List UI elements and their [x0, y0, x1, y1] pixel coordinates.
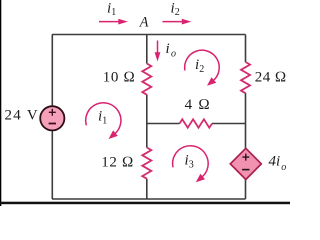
svg-text:2: 2: [199, 64, 204, 75]
voltage source minus: [49, 123, 56, 125]
svg-text:4i: 4i: [269, 154, 281, 170]
wire middle branch center: [146, 95, 148, 148]
dependent source plus: [242, 154, 249, 161]
svg-text:3: 3: [189, 159, 194, 170]
wire middle branch lower: [146, 179, 148, 199]
wire right middle: [245, 93, 247, 149]
current arrow io: [157, 41, 159, 54]
wire left: [51, 35, 53, 107]
svg-text:o: o: [171, 48, 176, 59]
dependent source minus: [242, 169, 249, 171]
voltage source plus: [49, 109, 56, 116]
resistor 4 ohm: [180, 119, 213, 127]
current arrow i2 top: [163, 21, 184, 23]
wire middle horizontal right: [212, 123, 246, 125]
mesh arrow i1: [86, 103, 121, 134]
svg-text:1: 1: [102, 115, 107, 126]
resistor 10 ohm: [142, 64, 151, 95]
svg-text:A: A: [139, 14, 149, 30]
svg-text:i: i: [166, 41, 170, 57]
svg-text:12 Ω: 12 Ω: [101, 155, 134, 171]
svg-text:10 Ω: 10 Ω: [103, 69, 136, 85]
mesh arrow i3: [173, 146, 209, 177]
current arrow i1 top: [99, 21, 120, 23]
page border left bar: [0, 0, 1, 206]
svg-text:24 V: 24 V: [5, 108, 40, 124]
resistor 24 ohm: [241, 62, 250, 93]
svg-text:4 Ω: 4 Ω: [185, 97, 211, 113]
svg-text:1: 1: [111, 7, 116, 18]
wire node A branch: [146, 35, 148, 64]
svg-text:o: o: [281, 162, 286, 173]
svg-text:2: 2: [175, 7, 180, 18]
wire top: [52, 34, 246, 36]
resistor 12 ohm: [142, 148, 151, 179]
voltage source 24V circle: [40, 106, 64, 130]
wire right upper: [245, 35, 247, 63]
wire left lower: [51, 130, 53, 199]
svg-text:24 Ω: 24 Ω: [255, 70, 287, 86]
wire bottom: [52, 198, 246, 200]
wire right lower: [245, 179, 247, 199]
dependent source 4io diamond: [230, 148, 261, 179]
wire middle horizontal left: [147, 123, 180, 125]
mesh arrow i2: [185, 50, 220, 81]
page border bottom bar: [0, 202, 290, 205]
